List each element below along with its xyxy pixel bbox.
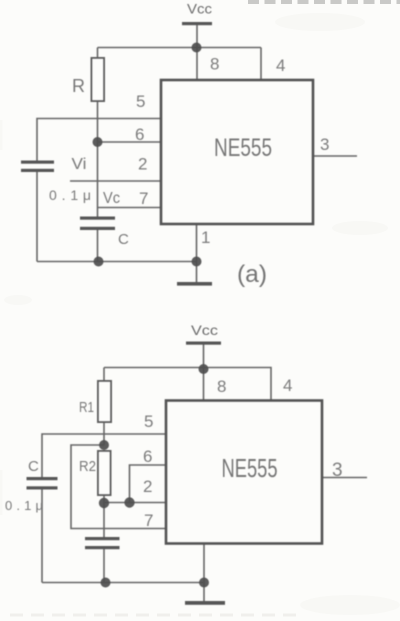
- svg-text:C: C: [118, 231, 129, 248]
- capacitor bottom plates: [85, 537, 120, 549]
- ground bar: [185, 601, 225, 605]
- wire R2 bottom lead: [103, 493, 105, 503]
- wire R1 top lead: [103, 368, 105, 382]
- svg-text:6: 6: [135, 125, 144, 144]
- scan artifact faint row bottom: [10, 614, 300, 617]
- junction node IC ground: [199, 578, 209, 588]
- wire top rail to pin4 corner: [104, 368, 271, 401]
- wire pin 7: [98, 207, 162, 209]
- wire R1 bottom lead: [103, 422, 105, 445]
- junction node R2 bottom: [99, 498, 109, 508]
- power bar Vcc: [182, 22, 212, 25]
- svg-text:R1: R1: [79, 399, 94, 416]
- wire IC ground pin: [203, 544, 205, 583]
- wire pin 3 output: [322, 477, 367, 479]
- wire cap C bottom lead: [97, 230, 99, 262]
- capacitor 0.1u plates: [21, 161, 54, 173]
- wire left cap bottom lead: [41, 490, 43, 583]
- wire pin 8 drop: [203, 368, 205, 401]
- wire node column to cap C: [97, 142, 99, 217]
- wire pin 3 output: [314, 155, 357, 157]
- wire pin 6: [98, 141, 162, 143]
- svg-text:NE555: NE555: [222, 453, 278, 483]
- svg-text:4: 4: [283, 376, 292, 395]
- svg-text:6: 6: [143, 447, 152, 466]
- wire pin 4 drop: [260, 48, 262, 81]
- resistor R1: [98, 381, 111, 422]
- wire pin 5: [42, 434, 165, 477]
- wire ground stub: [203, 583, 205, 602]
- svg-text:R2: R2: [79, 458, 96, 475]
- svg-text:Vc: Vc: [103, 190, 120, 207]
- svg-text:8: 8: [217, 377, 226, 396]
- svg-text:8: 8: [210, 55, 219, 74]
- wire pin 5: [37, 119, 161, 162]
- op-amp U1 NE555 box: [161, 80, 313, 224]
- wire cap lead from pin2 node: [103, 503, 105, 537]
- svg-text:Vcc: Vcc: [187, 1, 212, 17]
- junction node cap C ground: [94, 257, 104, 267]
- wire pin 6: [130, 465, 166, 503]
- wire pin 2: [104, 502, 165, 504]
- wire cap bottom lead: [103, 549, 105, 583]
- op-amp U2 NE555 box: [166, 401, 322, 544]
- capacitor C plates: [80, 217, 115, 231]
- resistor R: [92, 58, 105, 101]
- junction node pin2/6: [124, 497, 134, 507]
- svg-text:5: 5: [136, 92, 145, 111]
- wire ground stub: [196, 262, 198, 283]
- junction node pin6/R: [93, 137, 103, 147]
- wire pin 2 (Vi input): [70, 180, 161, 182]
- svg-text:2: 2: [138, 155, 147, 174]
- svg-text:7: 7: [144, 511, 153, 530]
- svg-text:0.1μ: 0.1μ: [5, 498, 43, 513]
- svg-text:1: 1: [201, 228, 210, 247]
- svg-text:Vi: Vi: [72, 156, 87, 173]
- wire ground rail: [37, 261, 197, 263]
- svg-text:3: 3: [332, 460, 343, 481]
- junction node R1/R2: [99, 440, 109, 450]
- junction node pin1 ground: [192, 257, 202, 267]
- wire loop to pin 7: [71, 445, 165, 529]
- wire left cap bottom lead: [36, 172, 38, 262]
- wire pin 1: [196, 224, 198, 262]
- svg-text:C: C: [28, 458, 39, 475]
- power Vcc stub wire: [196, 25, 198, 48]
- junction node at Vcc: [192, 43, 202, 53]
- wire top rail from R top to pin4 corner: [98, 47, 262, 49]
- svg-text:5: 5: [144, 412, 153, 431]
- capacitor C 0.1u plates: [27, 477, 58, 490]
- wire R bottom lead to pin6 node: [97, 101, 99, 142]
- svg-text:7: 7: [139, 189, 148, 208]
- svg-text:2: 2: [143, 477, 152, 496]
- svg-text:NE555: NE555: [214, 134, 272, 162]
- svg-text:Vcc: Vcc: [191, 322, 218, 338]
- resistor R2: [98, 451, 111, 495]
- svg-text:3: 3: [320, 135, 329, 154]
- svg-text:4: 4: [276, 56, 285, 75]
- wire pin 8 drop: [196, 48, 198, 81]
- wire ground rail: [42, 582, 204, 584]
- power Vcc stub wire: [203, 344, 205, 368]
- power bar Vcc: [186, 342, 221, 345]
- ground bar: [177, 282, 212, 286]
- junction node cap ground: [101, 578, 111, 588]
- svg-text:0.1μ: 0.1μ: [49, 187, 91, 203]
- svg-text:R: R: [72, 76, 85, 96]
- svg-text:(a): (a): [237, 261, 267, 288]
- scan artifact dashed row top right: [248, 0, 400, 4]
- wire R top lead: [97, 48, 99, 59]
- junction node at Vcc: [199, 364, 209, 374]
